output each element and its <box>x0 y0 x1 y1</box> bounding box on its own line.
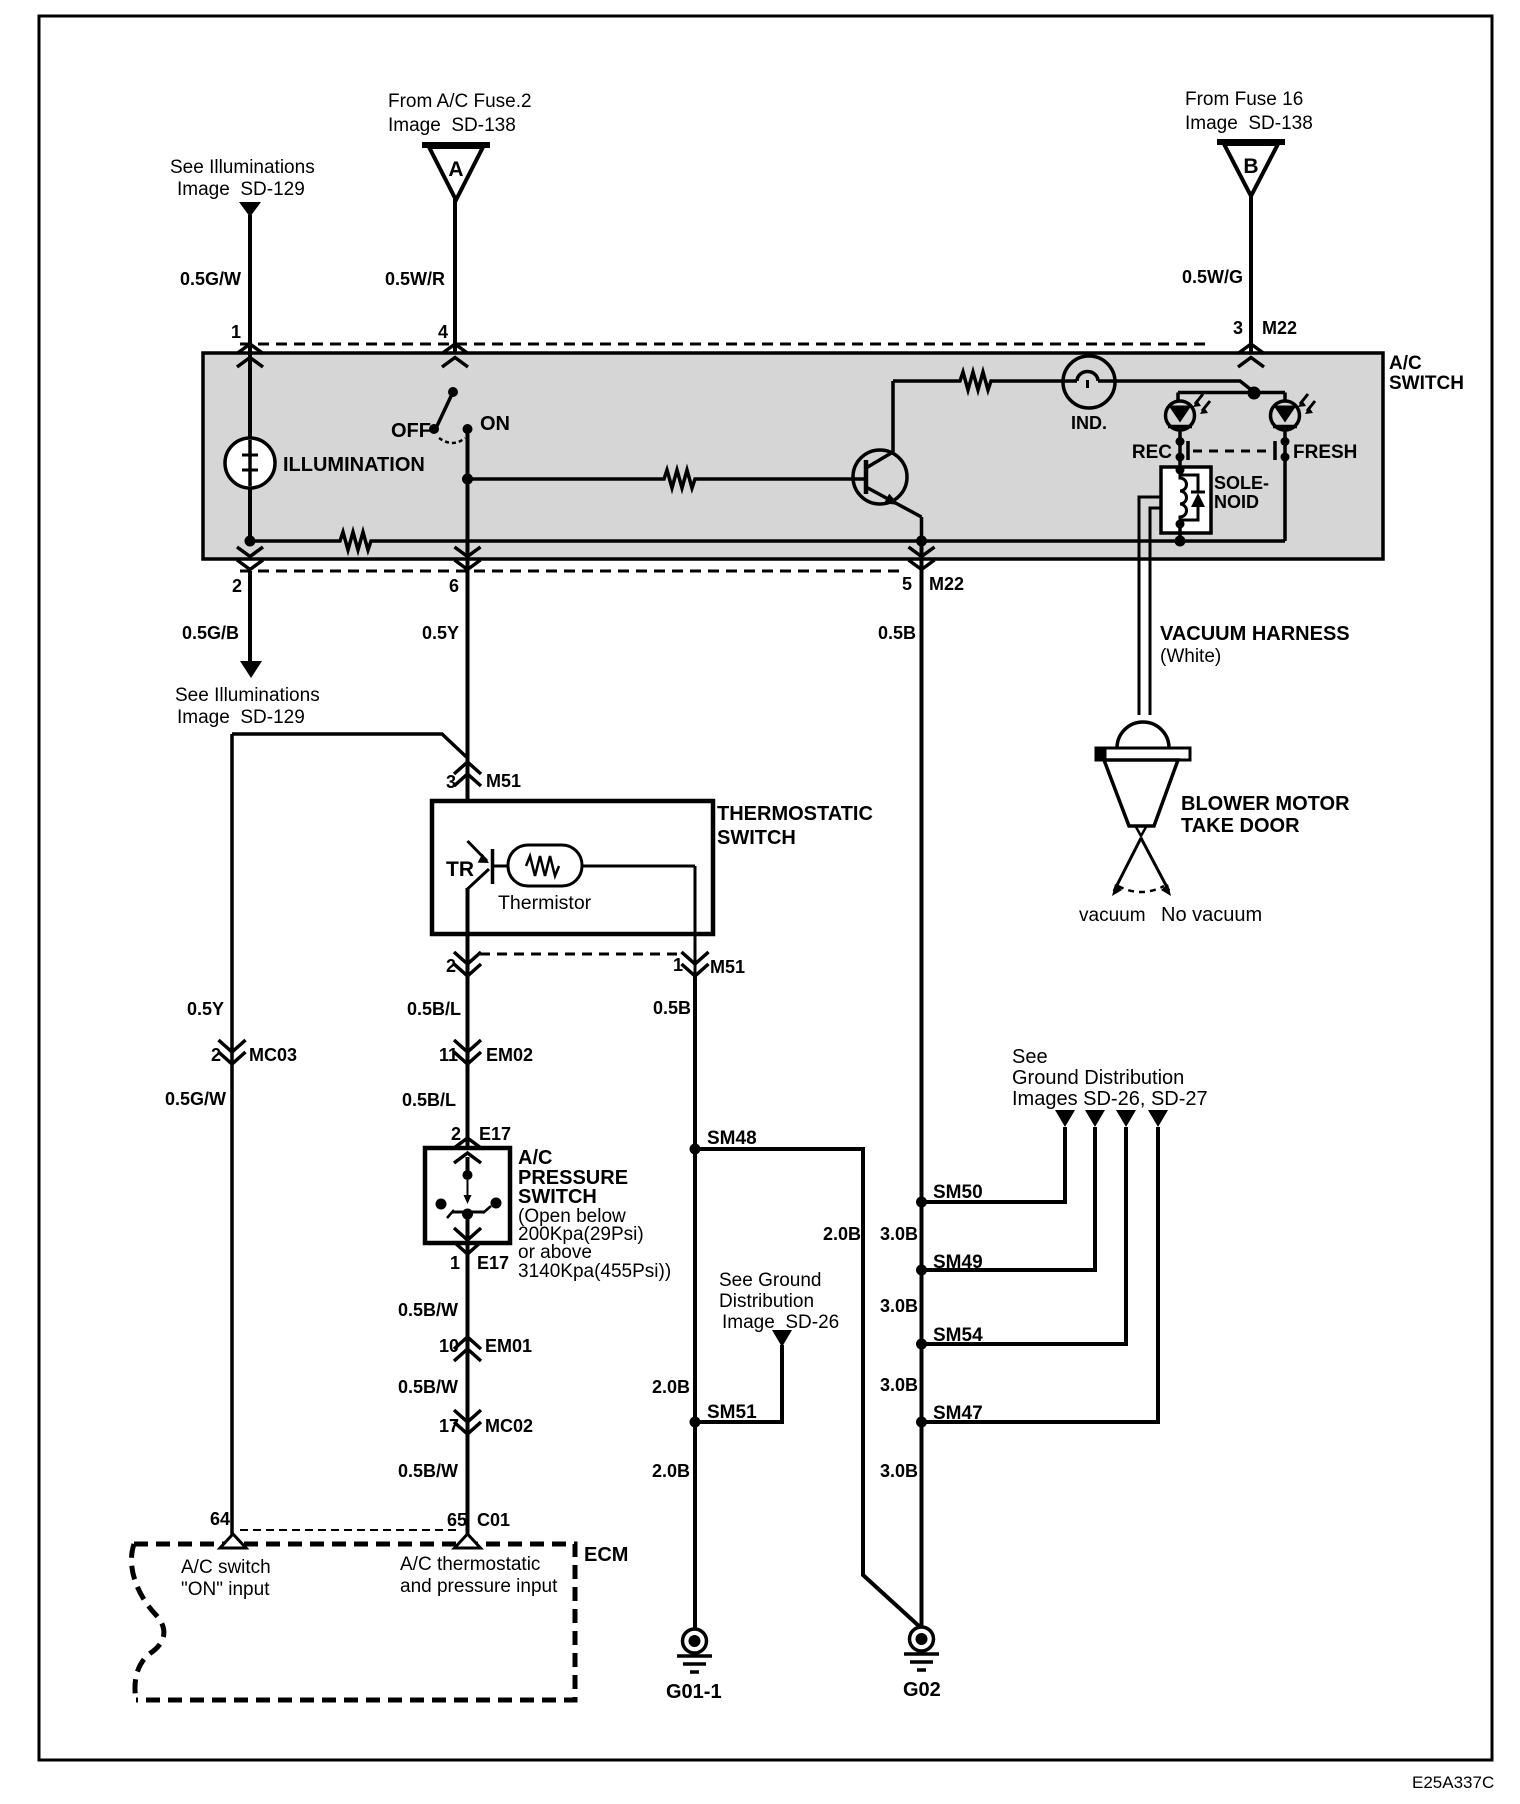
svg-text:Images SD-26, SD-27: Images SD-26, SD-27 <box>1012 1088 1208 1110</box>
svg-text:0.5B: 0.5B <box>653 998 691 1018</box>
svg-text:Ground Distribution: Ground Distribution <box>1012 1067 1184 1089</box>
svg-text:10: 10 <box>439 1336 459 1356</box>
svg-text:SWITCH: SWITCH <box>518 1186 597 1208</box>
svg-text:SM54: SM54 <box>933 1325 983 1346</box>
svg-text:TAKE DOOR: TAKE DOOR <box>1181 815 1300 837</box>
svg-text:0.5G/W: 0.5G/W <box>165 1089 226 1109</box>
svg-text:3.0B: 3.0B <box>880 1224 918 1244</box>
svg-text:3.0B: 3.0B <box>880 1296 918 1316</box>
svg-text:2: 2 <box>451 1124 461 1144</box>
svg-text:THERMOSTATIC: THERMOSTATIC <box>717 803 873 825</box>
svg-text:A/C: A/C <box>518 1147 552 1169</box>
svg-text:65: 65 <box>447 1510 467 1530</box>
svg-text:E25A337C: E25A337C <box>1412 1773 1494 1792</box>
svg-text:2.0B: 2.0B <box>652 1377 690 1397</box>
svg-text:REC: REC <box>1132 442 1172 463</box>
svg-text:"ON" input: "ON" input <box>181 1579 270 1600</box>
svg-text:Image SD-129: Image SD-129 <box>177 179 305 200</box>
svg-text:M51: M51 <box>486 771 521 791</box>
svg-text:2: 2 <box>232 576 242 596</box>
svg-text:SM51: SM51 <box>707 1402 757 1423</box>
svg-text:3.0B: 3.0B <box>880 1461 918 1481</box>
svg-text:Image SD-138: Image SD-138 <box>1185 113 1313 134</box>
svg-text:MC02: MC02 <box>485 1416 533 1436</box>
svg-text:0.5B/L: 0.5B/L <box>407 999 461 1019</box>
svg-text:MC03: MC03 <box>249 1045 297 1065</box>
svg-text:A/C switch: A/C switch <box>181 1557 271 1578</box>
svg-text:SOLE-: SOLE- <box>1214 473 1269 493</box>
svg-text:G02: G02 <box>903 1679 941 1701</box>
svg-text:E17: E17 <box>479 1124 511 1144</box>
svg-text:OFF: OFF <box>391 420 431 442</box>
svg-text:ILLUMINATION: ILLUMINATION <box>283 454 425 476</box>
svg-text:SM47: SM47 <box>933 1403 983 1424</box>
svg-text:NOID: NOID <box>1214 492 1259 512</box>
svg-text:See Illuminations: See Illuminations <box>170 157 315 178</box>
svg-text:Image SD-26: Image SD-26 <box>722 1312 839 1333</box>
svg-text:0.5B/W: 0.5B/W <box>398 1461 458 1481</box>
svg-text:or above: or above <box>518 1242 592 1263</box>
svg-text:2.0B: 2.0B <box>652 1461 690 1481</box>
svg-text:VACUUM HARNESS: VACUUM HARNESS <box>1160 623 1350 645</box>
svg-text:B: B <box>1243 155 1258 178</box>
svg-text:See: See <box>1012 1046 1048 1068</box>
svg-text:0.5W/R: 0.5W/R <box>385 269 445 289</box>
svg-text:17: 17 <box>439 1416 459 1436</box>
svg-text:M22: M22 <box>1262 318 1297 338</box>
svg-text:SWITCH: SWITCH <box>1389 373 1464 394</box>
svg-text:See Illuminations: See Illuminations <box>175 685 320 706</box>
svg-text:BLOWER MOTOR: BLOWER MOTOR <box>1181 793 1350 815</box>
svg-text:0.5B/W: 0.5B/W <box>398 1377 458 1397</box>
svg-text:5: 5 <box>902 574 912 594</box>
svg-text:0.5B/L: 0.5B/L <box>402 1090 456 1110</box>
svg-text:No vacuum: No vacuum <box>1161 904 1262 926</box>
svg-text:0.5G/W: 0.5G/W <box>180 269 241 289</box>
svg-text:0.5B/W: 0.5B/W <box>398 1300 458 1320</box>
svg-text:M51: M51 <box>710 957 745 977</box>
svg-text:0.5Y: 0.5Y <box>422 623 459 643</box>
svg-text:3: 3 <box>1233 318 1243 338</box>
svg-text:FRESH: FRESH <box>1293 442 1357 463</box>
svg-text:Distribution: Distribution <box>719 1291 814 1312</box>
svg-text:SWITCH: SWITCH <box>717 827 796 849</box>
svg-text:E17: E17 <box>477 1253 509 1273</box>
svg-text:4: 4 <box>438 322 448 342</box>
svg-text:A: A <box>448 158 463 181</box>
svg-text:TR: TR <box>446 858 474 881</box>
svg-text:0.5Y: 0.5Y <box>187 999 224 1019</box>
svg-text:EM01: EM01 <box>485 1336 532 1356</box>
svg-text:0.5B: 0.5B <box>878 623 916 643</box>
svg-text:vacuum: vacuum <box>1079 905 1146 926</box>
svg-text:ECM: ECM <box>584 1544 628 1566</box>
svg-text:0.5G/B: 0.5G/B <box>182 623 239 643</box>
svg-text:EM02: EM02 <box>486 1045 533 1065</box>
svg-text:ON: ON <box>480 413 510 435</box>
svg-text:3.0B: 3.0B <box>880 1375 918 1395</box>
svg-text:SM50: SM50 <box>933 1182 983 1203</box>
svg-text:6: 6 <box>449 576 459 596</box>
svg-text:2: 2 <box>211 1045 221 1065</box>
svg-text:From A/C Fuse.2: From A/C Fuse.2 <box>388 91 532 112</box>
svg-text:0.5W/G: 0.5W/G <box>1182 267 1243 287</box>
svg-text:C01: C01 <box>477 1510 510 1530</box>
svg-text:1: 1 <box>231 322 241 342</box>
svg-text:Image SD-129: Image SD-129 <box>177 707 305 728</box>
svg-text:From Fuse 16: From Fuse 16 <box>1185 89 1303 110</box>
svg-text:SM48: SM48 <box>707 1128 757 1149</box>
svg-text:and pressure input: and pressure input <box>400 1576 558 1597</box>
svg-text:See Ground: See Ground <box>719 1270 821 1291</box>
svg-text:IND.: IND. <box>1071 413 1107 433</box>
svg-text:11: 11 <box>439 1045 458 1065</box>
svg-text:G01-1: G01-1 <box>666 1681 722 1703</box>
svg-text:3: 3 <box>446 772 456 792</box>
svg-text:SM49: SM49 <box>933 1252 983 1273</box>
svg-text:1: 1 <box>673 955 683 975</box>
svg-text:Image SD-138: Image SD-138 <box>388 115 516 136</box>
svg-text:3140Kpa(455Psi)): 3140Kpa(455Psi)) <box>518 1261 671 1282</box>
svg-text:2.0B: 2.0B <box>823 1224 861 1244</box>
svg-text:A/C thermostatic: A/C thermostatic <box>400 1554 540 1575</box>
svg-text:2: 2 <box>446 956 456 976</box>
svg-text:1: 1 <box>450 1253 460 1273</box>
svg-text:(White): (White) <box>1160 646 1221 667</box>
svg-text:A/C: A/C <box>1389 353 1422 374</box>
svg-text:Thermistor: Thermistor <box>498 892 592 914</box>
svg-text:M22: M22 <box>929 574 964 594</box>
svg-text:64: 64 <box>210 1509 230 1529</box>
